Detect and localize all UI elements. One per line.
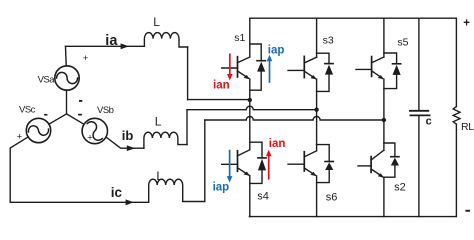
svg-text:L: L (156, 169, 163, 183)
wire phase-a vertical (187, 47, 189, 100)
svg-text:iap: iap (268, 44, 285, 56)
arrow ic (126, 199, 134, 205)
wire rail phase c with hops (205, 117, 384, 120)
wire leg3 mid (383, 120, 385, 143)
diode D5 (384, 53, 397, 64)
arrow ian down (s1) (229, 54, 231, 74)
resistor RL (455, 18, 457, 106)
svg-text:+: + (83, 53, 89, 64)
emitter arrowhead s5 (378, 75, 384, 79)
wire phase-b vertical (186, 110, 188, 145)
diode D3 (317, 53, 329, 63)
source VSb (82, 118, 107, 143)
wire VSb to ib (106, 137, 144, 148)
diode triangle D5 (393, 65, 401, 75)
svg-text:VSc: VSc (19, 105, 36, 116)
inductor L phase a (144, 33, 187, 47)
svg-text:s5: s5 (397, 37, 408, 49)
svg-text:+: + (87, 133, 93, 144)
diode triangle D2 (391, 158, 399, 166)
emitter arrowhead s6 (310, 172, 316, 176)
diode D4 (250, 142, 262, 158)
svg-text:ian: ian (213, 80, 230, 92)
node A (248, 98, 252, 102)
diode D2 (384, 143, 395, 157)
wire ia (66, 45, 145, 47)
IGBT s2 (383, 143, 385, 150)
svg-text:ian: ian (269, 138, 286, 150)
arrow ian up (s4) (268, 156, 270, 179)
svg-text:iap: iap (213, 181, 230, 193)
node C (382, 118, 386, 122)
svg-text:VSa: VSa (38, 74, 56, 85)
inductor L phase c (149, 179, 205, 202)
emitter arrowhead s3 (310, 75, 316, 79)
IGBT s5 (383, 18, 385, 57)
wire rail phase b with hop (187, 106, 317, 110)
emitter arrowhead s1 (244, 75, 250, 79)
diode triangle D4 (258, 159, 266, 171)
arrow ia (121, 43, 129, 49)
svg-text:L: L (153, 15, 160, 29)
wire rail phase a (188, 99, 250, 101)
svg-text:ib: ib (122, 128, 134, 143)
arrow iap up (s1) (269, 61, 271, 83)
wire phase-c vertical (204, 120, 206, 202)
node B (314, 108, 318, 112)
svg-text:VSb: VSb (97, 105, 114, 116)
svg-text:L: L (155, 115, 162, 129)
wire bottom DC bus (249, 216, 455, 218)
diode D6 (317, 145, 330, 162)
source VSa (55, 66, 79, 90)
diode triangle D6 (325, 162, 333, 170)
wire VSa top lead (65, 46, 68, 66)
polarity - VSb (78, 114, 82, 116)
emitter arrowhead s4 (244, 172, 250, 176)
svg-text:s2: s2 (394, 181, 406, 193)
wire Y to VSc (49, 114, 67, 124)
diode D1 (250, 44, 261, 61)
wire top DC bus (250, 17, 457, 19)
arrow iap down (s4) (229, 151, 231, 177)
svg-text:s6: s6 (326, 191, 338, 203)
wire Y to VSb (67, 114, 84, 124)
diode triangle D3 (325, 65, 333, 75)
source VSc (26, 118, 50, 142)
svg-text:s3: s3 (323, 34, 334, 46)
svg-text:c: c (426, 115, 432, 127)
svg-text:ia: ia (105, 33, 118, 49)
wire VSa bottom lead (66, 90, 68, 114)
inductor L phase b (144, 132, 187, 148)
polarity - DC (465, 210, 470, 212)
emitter arrowhead s2 (378, 173, 384, 177)
IGBT s3 (316, 18, 318, 57)
wire leg1 mid (249, 100, 251, 142)
svg-text:s1: s1 (234, 32, 245, 44)
svg-text:+: + (17, 131, 23, 142)
polarity - VSc (44, 114, 47, 116)
svg-text:+: + (463, 17, 470, 29)
IGBT s4 (249, 142, 251, 150)
IGBT s6 (316, 145, 318, 151)
svg-text:RL: RL (461, 121, 474, 133)
arrow ib (127, 145, 135, 151)
IGBT s1 (249, 18, 251, 57)
svg-text:ic: ic (111, 185, 123, 200)
polarity - VSa (79, 100, 82, 102)
svg-text:s4: s4 (257, 191, 269, 203)
capacitor c (418, 18, 420, 110)
wire VSc to bottom (10, 137, 149, 203)
diode triangle D1 (257, 62, 265, 72)
wire leg2 mid (316, 110, 318, 145)
